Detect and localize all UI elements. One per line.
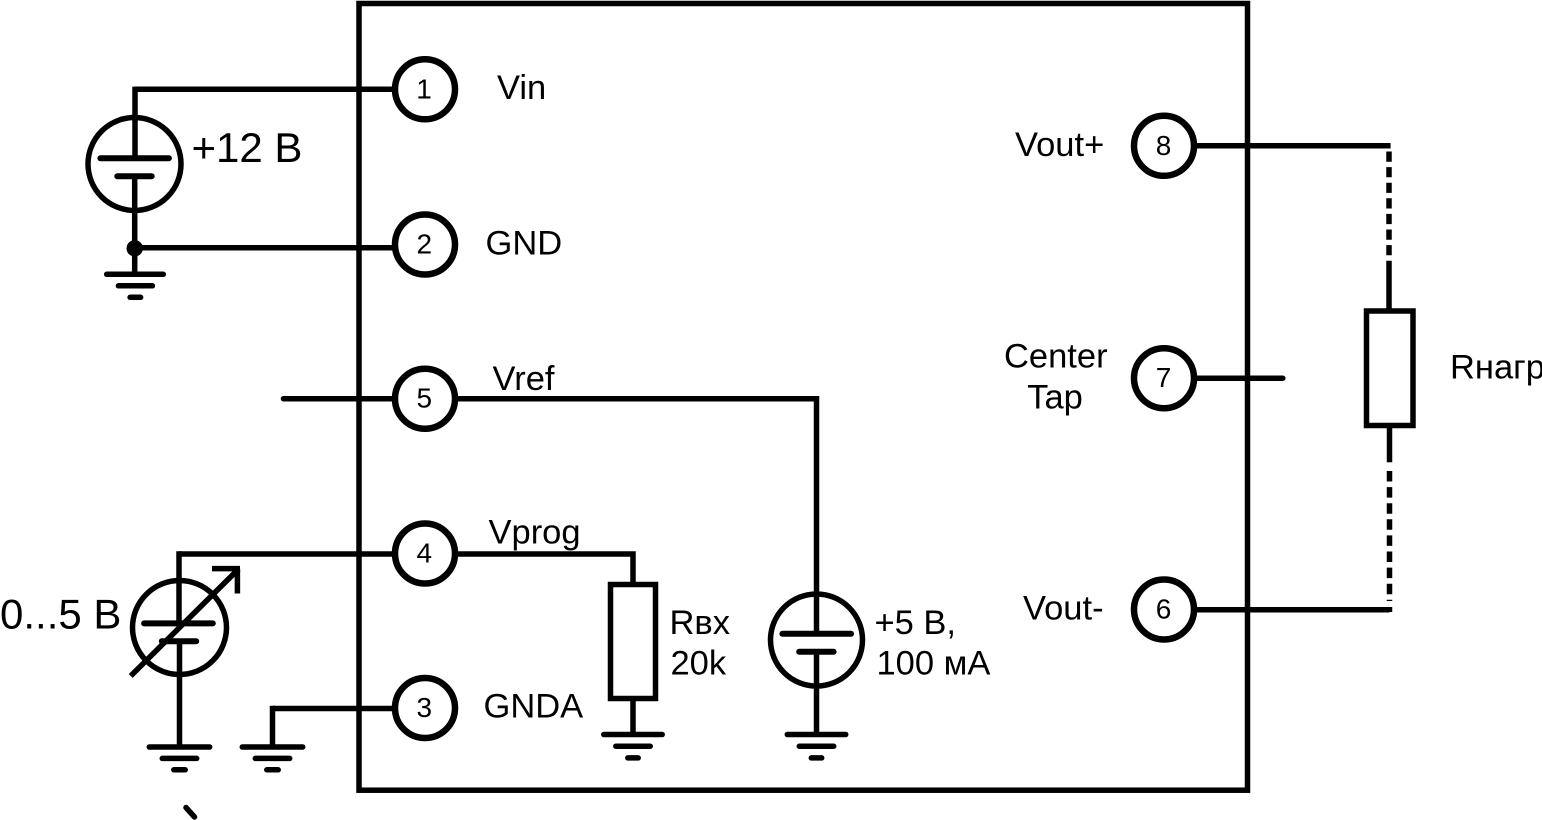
svg-text:Vout-: Vout- (1023, 590, 1104, 628)
wire junction to ground (132, 248, 138, 274)
wire pin3 to ground (273, 706, 403, 712)
ground under V3 (787, 735, 845, 758)
svg-text:GND: GND (486, 225, 563, 263)
svg-text:Center: Center (1004, 338, 1108, 376)
svg-text:4: 4 (417, 538, 433, 569)
battery V2 long plate (144, 620, 213, 626)
svg-text:20k: 20k (671, 645, 727, 683)
pin 3 circle (395, 678, 455, 738)
battery V1 short plate (117, 173, 151, 179)
pin 1 circle (395, 59, 455, 119)
wire Rload bottom lead (1387, 424, 1393, 462)
pin 6 circle (1134, 580, 1194, 640)
svg-text:Vin: Vin (497, 69, 546, 107)
variable source V2 circle (133, 581, 227, 675)
junction node dot (127, 240, 143, 256)
voltage source V1 circle (88, 118, 181, 211)
wire pin6 Vout- (1164, 610, 1390, 612)
svg-text:100 мА: 100 мА (877, 645, 991, 683)
svg-text:2: 2 (417, 229, 433, 260)
svg-text:Vout+: Vout+ (1015, 126, 1104, 164)
ground at pin3 wire (242, 747, 302, 770)
pin 4 circle (395, 524, 455, 584)
svg-text:Vprog: Vprog (489, 514, 581, 552)
wire V1 bottom lead (132, 176, 138, 248)
wire pin8 Vout+ (1164, 143, 1391, 149)
wire V3 top internal lead (814, 592, 820, 634)
wire Vref net to +5V source (425, 399, 817, 634)
dashed wire to Rload top (1386, 152, 1392, 267)
arrow shaft across V2 (131, 569, 239, 676)
battery V3 long plate (782, 631, 851, 637)
stray tick mark (186, 808, 195, 818)
resistor Rvx body (611, 585, 656, 699)
battery V3 short plate (799, 649, 833, 655)
wire Rload top lead (1386, 266, 1392, 313)
wire Rvx bottom lead (630, 697, 636, 735)
svg-text:+12 В: +12 В (192, 124, 303, 171)
wire pin4 Vprog to resistor (425, 554, 633, 586)
svg-text:0...5 В: 0...5 В (0, 591, 121, 638)
svg-text:3: 3 (417, 692, 433, 723)
wire pin1 to +12V source (135, 87, 402, 93)
pin 5 circle (395, 369, 455, 429)
ground under V1 (107, 274, 164, 297)
svg-text:5: 5 (417, 383, 433, 414)
svg-text:6: 6 (1156, 594, 1172, 625)
svg-text:+5 В,: +5 В, (875, 604, 957, 642)
svg-text:GNDA: GNDA (484, 688, 584, 726)
wire V3 bottom lead (814, 652, 820, 735)
svg-text:1: 1 (416, 73, 432, 104)
arrow head of V2 (212, 569, 240, 594)
svg-text:Rвх: Rвх (670, 604, 731, 642)
svg-text:8: 8 (1156, 130, 1172, 161)
pin 8 circle (1134, 116, 1194, 176)
wire pin3 ground stem (270, 706, 276, 747)
dashed wire to pin6 net (1387, 471, 1393, 601)
wire 0..5V source top lead (176, 551, 182, 624)
ground under Rvx (604, 735, 662, 758)
voltage source V3 circle (771, 594, 863, 686)
wire pin7 stub (1164, 375, 1283, 381)
pin 7 circle (1134, 348, 1194, 408)
wire +12V source top lead (132, 87, 138, 159)
wire pin5 stub left (284, 396, 403, 402)
svg-text:7: 7 (1156, 362, 1172, 393)
IC module body U1 (359, 4, 1248, 791)
wire V2 bottom lead (177, 641, 183, 747)
svg-text:Rнагр: Rнагр (1450, 348, 1542, 386)
wire pin2 to junction (135, 245, 402, 251)
pin 2 circle (395, 215, 455, 275)
battery V2 short plate (162, 638, 196, 644)
wire pin4 to 0..5V source (179, 551, 402, 557)
battery V1 long plate (100, 155, 168, 161)
resistor Rload body (1367, 311, 1414, 426)
svg-text:Tap: Tap (1027, 379, 1083, 417)
ground under V2 (149, 747, 209, 770)
svg-text:Vref: Vref (493, 360, 555, 398)
